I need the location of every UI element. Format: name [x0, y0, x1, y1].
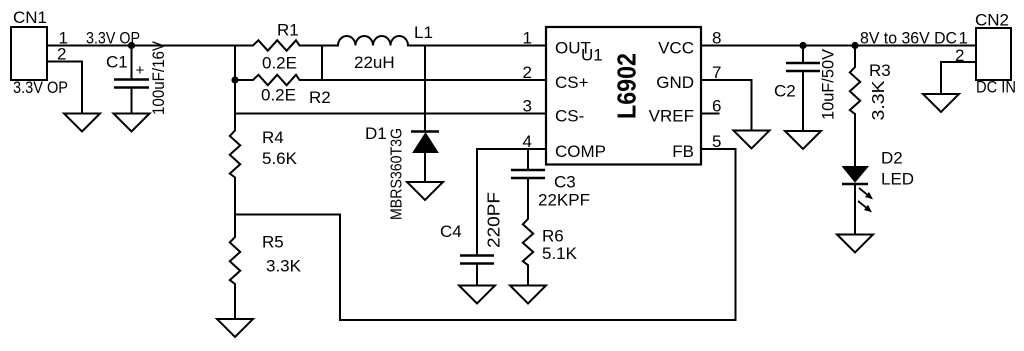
wire FB divider jog — [235, 215, 340, 321]
wire VCC rail — [701, 45, 976, 47]
svg-text:D2: D2 — [881, 149, 903, 168]
svg-text:C3: C3 — [554, 173, 576, 192]
wire C3 stem — [527, 149, 529, 169]
IC U1 L6902 — [546, 27, 701, 165]
wire D1 to ground — [424, 153, 426, 183]
wire R3 stem — [854, 46, 856, 64]
connector CN1 — [11, 8, 68, 97]
resistor R3 — [850, 61, 891, 118]
wire C2 stem — [802, 46, 804, 63]
resistor R2 — [249, 75, 331, 107]
svg-text:LED: LED — [881, 170, 914, 189]
LED D2 — [842, 149, 914, 212]
svg-text:R4: R4 — [262, 128, 284, 147]
ground — [923, 94, 959, 112]
svg-text:GND: GND — [656, 73, 694, 92]
svg-text:R2: R2 — [309, 88, 331, 107]
svg-text:DC IN: DC IN — [976, 78, 1016, 97]
wire CS- row — [235, 113, 546, 115]
svg-text:3.3V OP: 3.3V OP — [13, 78, 68, 97]
wire FB vertical — [735, 149, 737, 320]
diode D1 MBRS360T3G — [365, 124, 439, 153]
svg-text:3: 3 — [523, 97, 532, 116]
wire bottom bus — [340, 319, 736, 321]
connector CN2 — [975, 11, 1016, 97]
svg-text:R6: R6 — [542, 227, 564, 246]
wire CN1 pin2 to ground — [47, 62, 82, 114]
svg-text:5.6K: 5.6K — [262, 149, 298, 168]
wire left vertical — [234, 46, 236, 127]
svg-text:0.2E: 0.2E — [261, 86, 296, 105]
svg-text:MBRS360T3G: MBRS360T3G — [389, 128, 406, 220]
svg-text:R3: R3 — [869, 61, 891, 80]
ground — [785, 131, 821, 149]
ground — [837, 235, 873, 253]
svg-text:C2: C2 — [774, 82, 796, 101]
svg-text:2: 2 — [523, 63, 532, 82]
svg-text:22uH: 22uH — [354, 53, 395, 72]
wire CN2 pin2 to ground — [941, 62, 976, 94]
svg-text:C4: C4 — [440, 222, 462, 241]
wire switch node to D1 — [424, 46, 426, 132]
svg-text:100uF/16V: 100uF/16V — [149, 40, 168, 115]
svg-text:22KPF: 22KPF — [538, 191, 590, 210]
svg-text:U1: U1 — [581, 46, 603, 65]
wire R6 to ground — [527, 269, 529, 286]
wire D2 to ground — [854, 184, 856, 235]
inductor L1 — [338, 23, 433, 72]
svg-text:220PF: 220PF — [484, 192, 504, 248]
junction C2 — [799, 42, 806, 49]
ground — [114, 114, 150, 132]
ground — [217, 319, 253, 337]
capacitor C2 — [774, 63, 820, 101]
svg-text:CN2: CN2 — [975, 11, 1009, 30]
wire CS+ left — [235, 79, 249, 81]
svg-text:CS+: CS+ — [555, 73, 589, 92]
svg-text:1: 1 — [959, 29, 968, 48]
wire C2 to ground — [802, 71, 804, 131]
wire CS+ row to pin 2 — [303, 79, 546, 81]
svg-text:+: + — [136, 62, 145, 79]
svg-text:10uF/50V: 10uF/50V — [819, 48, 838, 120]
resistor R6 — [523, 215, 578, 269]
svg-text:R1: R1 — [277, 21, 299, 40]
svg-text:VREF: VREF — [649, 107, 694, 126]
wire FB pin — [701, 148, 736, 150]
resistor R5 — [230, 233, 302, 289]
svg-text:3.3K: 3.3K — [868, 80, 888, 120]
ground — [459, 286, 495, 304]
wire top rail CN1 to R1 — [47, 45, 249, 47]
wire C1 stem — [131, 46, 133, 79]
wire GND pin to ground — [701, 80, 752, 131]
svg-text:COMP: COMP — [555, 142, 606, 161]
svg-text:0.2E: 0.2E — [262, 54, 297, 73]
junction C1 top — [128, 42, 135, 49]
wire C1 to ground — [131, 88, 133, 114]
junction R2 row — [231, 76, 238, 83]
svg-text:5: 5 — [712, 132, 721, 151]
ground — [734, 131, 770, 149]
wire C4 to ground — [476, 264, 478, 286]
junction R3 — [851, 42, 858, 49]
wire C4 stem — [476, 149, 478, 254]
wire R5 to ground — [234, 288, 236, 319]
resistor R4 — [230, 127, 298, 182]
svg-text:D1: D1 — [365, 124, 387, 143]
wire C3 to R6 — [527, 178, 529, 215]
ground — [64, 114, 100, 132]
ground — [407, 182, 443, 200]
ground — [510, 286, 546, 304]
wire L1 to pin 1 — [408, 45, 546, 47]
wire node A vertical — [321, 46, 323, 81]
wire R4 to R5 — [234, 182, 236, 234]
svg-text:L6902: L6902 — [612, 53, 642, 119]
capacitor C3 — [511, 170, 590, 210]
svg-text:CS-: CS- — [555, 107, 584, 126]
wire COMP row — [477, 148, 546, 150]
svg-text:VCC: VCC — [658, 39, 694, 58]
capacitor C4 — [440, 222, 494, 264]
resistor R1 — [249, 21, 303, 73]
svg-text:R5: R5 — [262, 233, 284, 252]
wire R3 to D2 — [854, 118, 856, 167]
svg-text:5.1K: 5.1K — [542, 244, 578, 263]
capacitor C1 — [106, 53, 149, 88]
svg-text:1: 1 — [523, 29, 532, 48]
svg-text:3.3K: 3.3K — [266, 257, 302, 276]
wire R1 to L1 — [303, 45, 338, 47]
svg-text:C1: C1 — [106, 53, 128, 72]
svg-text:CN1: CN1 — [13, 8, 47, 27]
svg-text:L1: L1 — [414, 23, 433, 42]
svg-text:4: 4 — [523, 132, 532, 151]
wire VREF stub — [701, 113, 719, 115]
svg-text:FB: FB — [672, 142, 694, 161]
svg-text:8V to 36V DC: 8V to 36V DC — [860, 29, 957, 48]
